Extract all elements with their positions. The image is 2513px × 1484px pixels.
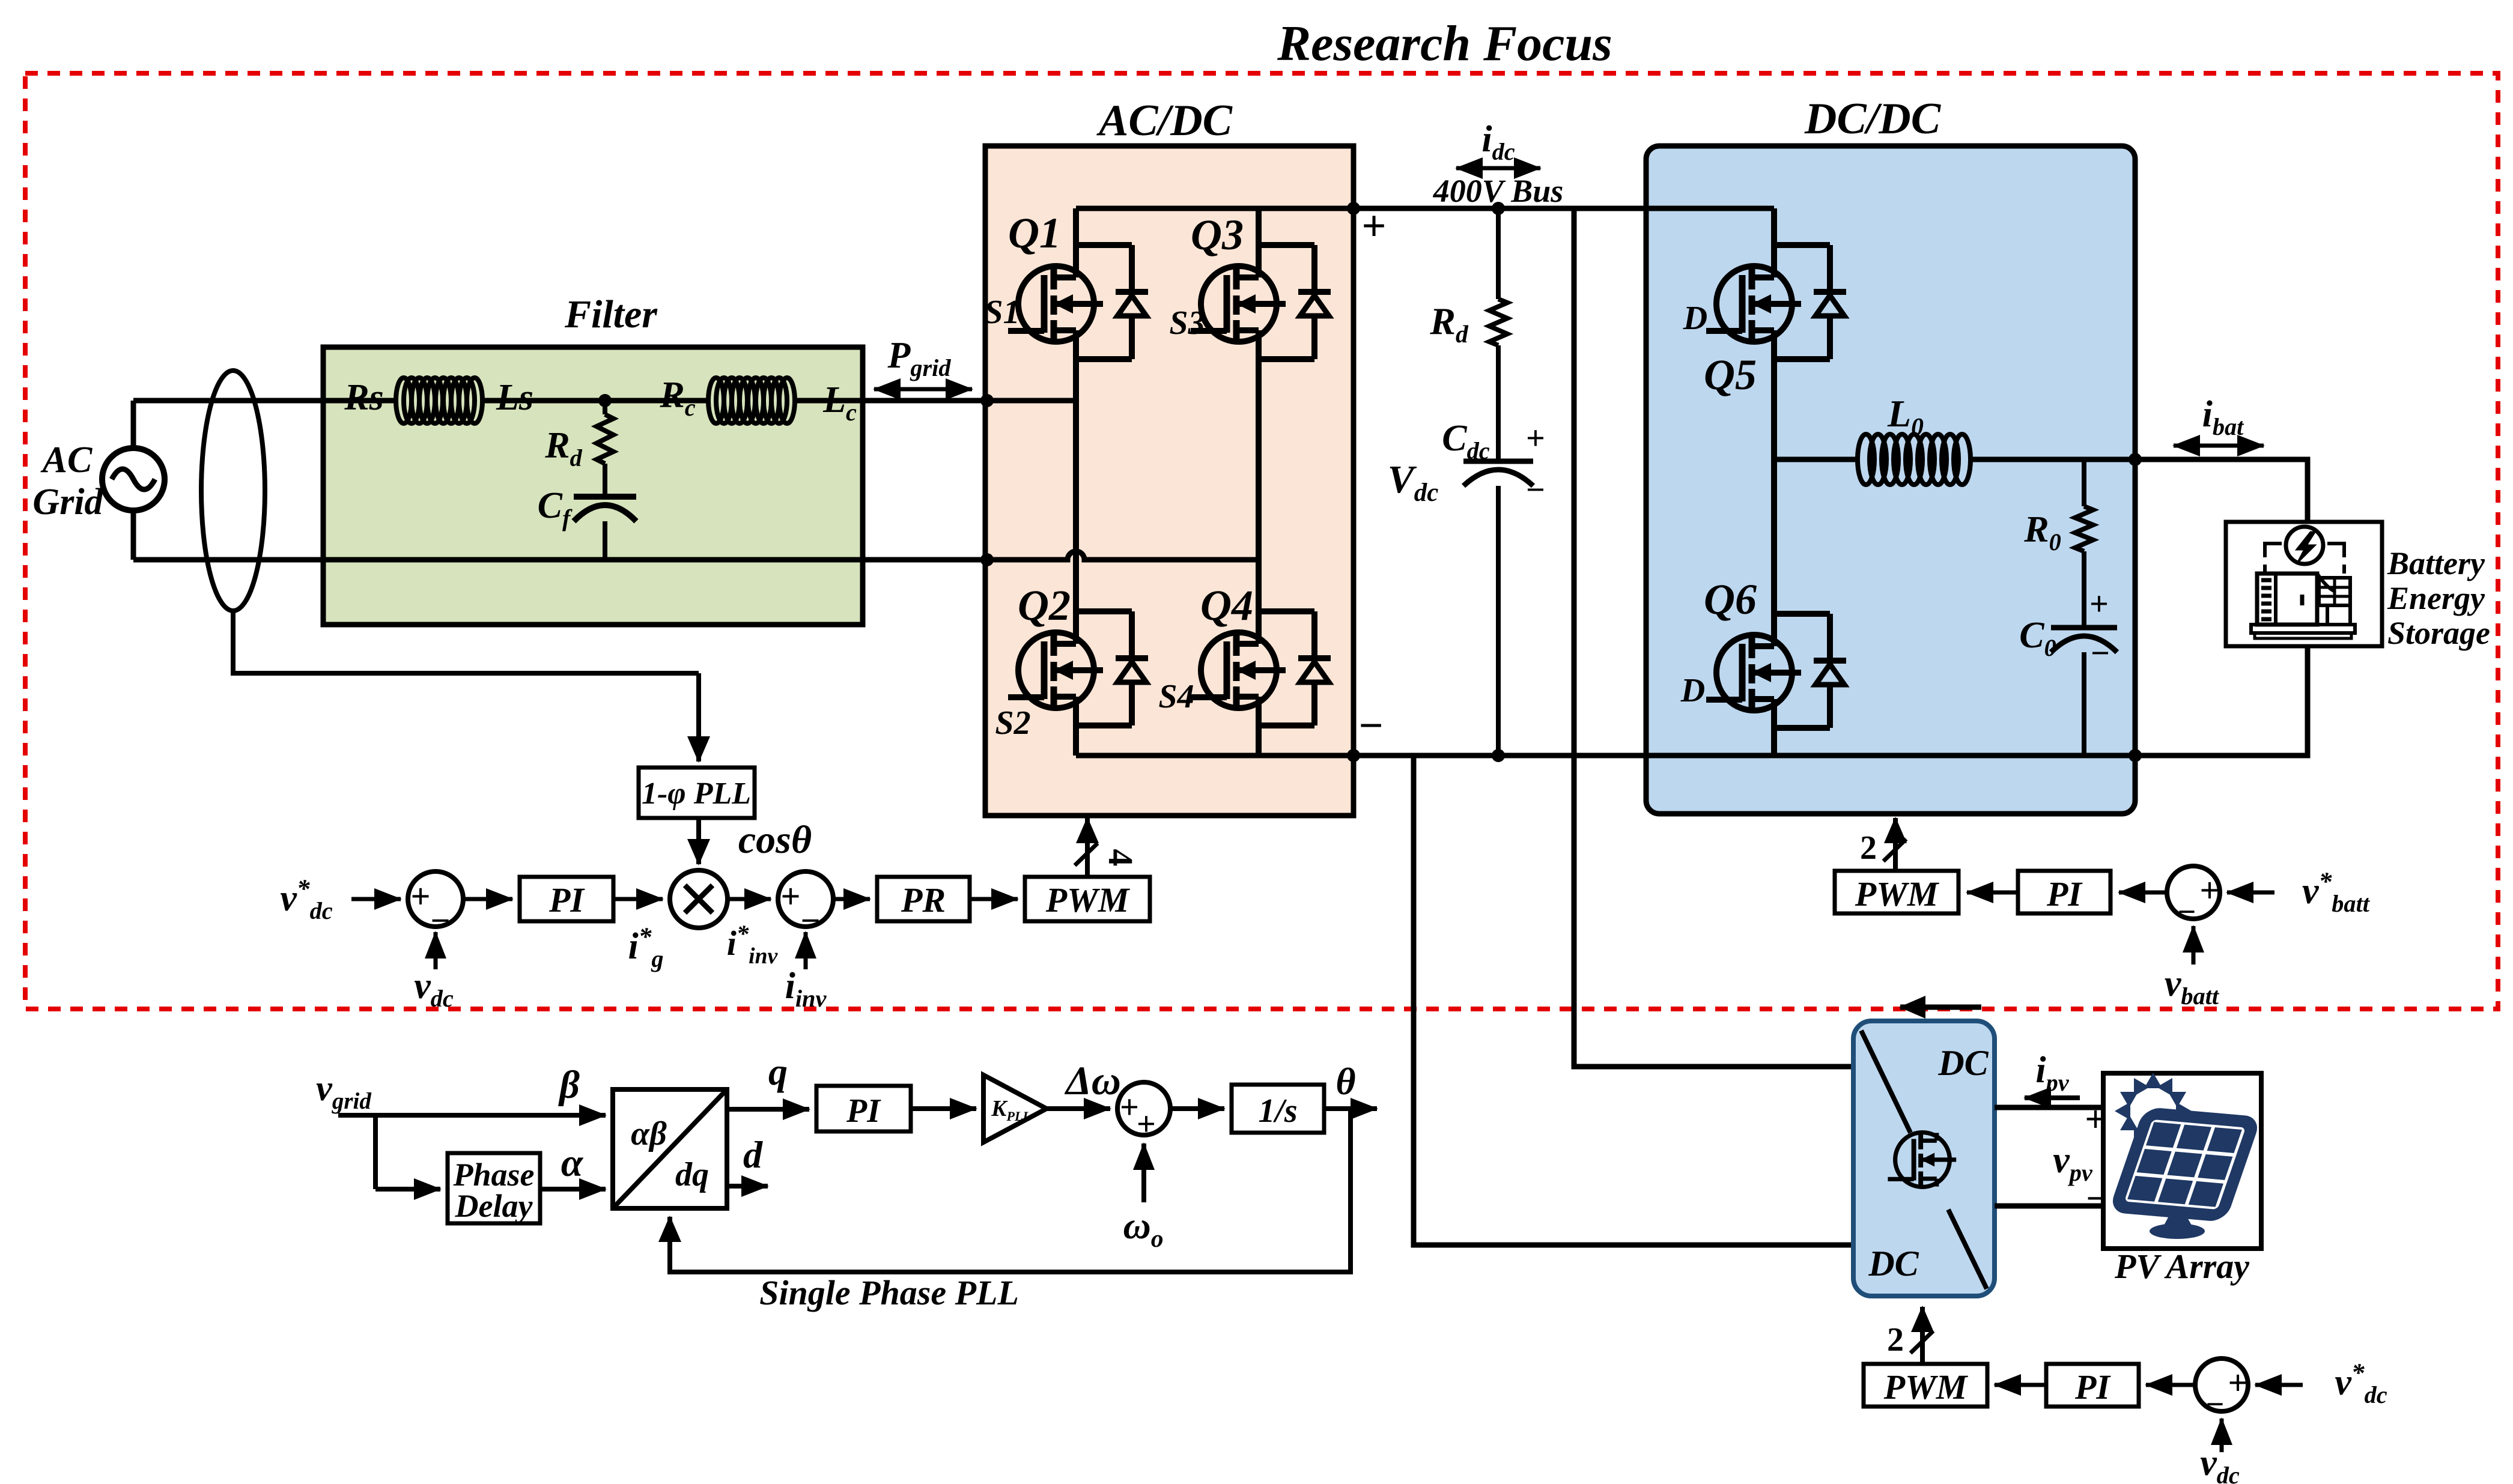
arrow sum to integrator: [1170, 1106, 1224, 1111]
wire DC/DC bottom bus: [1774, 753, 2135, 759]
svg-text:S3: S3: [1169, 304, 1205, 342]
block PI pll: [816, 1086, 911, 1131]
transistor Q1: [1008, 245, 1148, 359]
node bus + terminal: [1347, 202, 1360, 215]
wire vgrid: [338, 1113, 375, 1118]
arrow PI to mult: [613, 897, 663, 901]
svg-text:Single Phase PLL: Single Phase PLL: [759, 1273, 1019, 1312]
wire to R0: [2082, 459, 2086, 506]
transistor Q5: [1706, 245, 1846, 359]
inductor Ls: [396, 378, 412, 423]
arrow vdc up: [434, 932, 438, 969]
svg-text:dq: dq: [675, 1156, 709, 1193]
wire bus drop to PV upper: [1574, 208, 1853, 1067]
capacitor Cdc: [1463, 459, 1533, 464]
block PI pv: [2046, 1364, 2139, 1407]
svg-text:PR: PR: [901, 880, 946, 919]
svg-text:PI: PI: [846, 1092, 881, 1130]
PV converter block: [1853, 1021, 1995, 1296]
PV array icon: [2176, 1102, 2192, 1120]
svg-text:DC/DC: DC/DC: [1804, 94, 1942, 144]
transformer ellipse: [201, 371, 265, 611]
arrow PI to PWM battery: [1967, 891, 2018, 895]
arrow vbatt up: [2192, 926, 2196, 965]
wire L0 to edge: [1971, 457, 2135, 462]
svg-text:Q3: Q3: [1191, 211, 1244, 259]
svg-text:+: +: [410, 877, 430, 916]
transistor Q6: [1706, 614, 1846, 728]
block PWM pv: [1864, 1364, 1987, 1407]
svg-text:Q1: Q1: [1008, 209, 1061, 257]
transistor PV mosfet: [1888, 1133, 1956, 1187]
svg-text:AC: AC: [40, 440, 93, 480]
wire 400V bus top: [1354, 206, 1646, 211]
summer S_dc: [408, 871, 463, 927]
resistor Rd filter: [603, 401, 607, 414]
wire R0 to C0: [2082, 551, 2086, 628]
arrow beta into ab: [375, 1113, 606, 1118]
wire 400V bus bottom: [1354, 753, 1646, 759]
svg-text:Q5: Q5: [1704, 351, 1757, 399]
transistor Q4: [1191, 611, 1331, 725]
resistor R0: [2075, 506, 2093, 551]
wire grid top line: [133, 398, 987, 404]
inductor Lc: [708, 378, 724, 423]
DC/DC converter block (blue): [1646, 146, 2135, 814]
PV array box: [2103, 1073, 2261, 1249]
svg-text:PI: PI: [548, 880, 585, 919]
svg-text:Grid: Grid: [32, 482, 103, 522]
svg-text:−: −: [1358, 701, 1383, 750]
tick 4 wires: [1075, 843, 1098, 865]
svg-text:PWM: PWM: [1855, 874, 1940, 913]
block Phase Delay: [448, 1153, 540, 1223]
wire grid bottom line: [133, 551, 1259, 560]
tick 2 wires battery: [1883, 839, 1906, 861]
svg-text:+: +: [2089, 586, 2109, 623]
svg-text:4: 4: [1101, 849, 1140, 867]
node bus - terminal: [1347, 749, 1360, 762]
AC/DC converter block (orange): [985, 146, 1354, 816]
arrow d out: [727, 1184, 768, 1189]
svg-text:αβ: αβ: [631, 1115, 667, 1152]
block PWM acdc: [1025, 877, 1150, 921]
svg-text:S4: S4: [1158, 678, 1194, 715]
node filter out top: [980, 394, 994, 407]
svg-text:2: 2: [1860, 829, 1877, 867]
wire Rd to Cdc: [1496, 345, 1501, 461]
arrow PWM to bridge 4: [1085, 818, 1090, 877]
wire Cdc down: [1496, 486, 1501, 756]
svg-text:α: α: [561, 1141, 584, 1185]
arrow idc double: [1456, 166, 1540, 171]
wire left leg: [1073, 208, 1079, 245]
svg-text:PI: PI: [2074, 1367, 2111, 1407]
svg-text:+: +: [1137, 1106, 1156, 1143]
capacitor C0: [2051, 625, 2117, 631]
svg-text:+: +: [780, 877, 800, 916]
block PI voltage: [520, 877, 613, 921]
battery energy storage box: [2226, 522, 2382, 646]
node DC/DC out bottom: [2129, 749, 2142, 762]
wire C0 down: [2082, 652, 2086, 756]
inductor L0: [1858, 434, 1874, 485]
svg-text:+: +: [1526, 420, 1545, 457]
svg-text:D: D: [1683, 300, 1707, 337]
svg-text:+: +: [2228, 1363, 2247, 1402]
wire DC/DC leg: [1771, 208, 1777, 245]
arrow v*dc to pv sum: [2255, 1383, 2303, 1387]
arrow ipv: [2025, 1095, 2080, 1100]
wire phase node to L0: [1774, 457, 1857, 462]
PV converter diagonal bottom: [1948, 1210, 1987, 1289]
wire bus into DC/DC bottom: [1646, 753, 1774, 759]
arrow v*dc to sum: [351, 897, 401, 901]
PV converter diagonal top: [1861, 1031, 1910, 1133]
wire Cf down: [603, 521, 607, 560]
svg-text:Ls: Ls: [496, 377, 533, 418]
svg-text:D: D: [1680, 672, 1705, 709]
arrow q out: [727, 1107, 809, 1112]
svg-text:Phase: Phase: [453, 1157, 535, 1193]
node filter tap: [598, 394, 612, 407]
node filter out bottom: [980, 553, 994, 566]
arrow into research focus: [1900, 1005, 1981, 1010]
wire PLL sense tap: [233, 611, 699, 673]
arrow v*batt to sum: [2227, 891, 2274, 895]
filter block (green): [323, 347, 863, 625]
svg-text:β: β: [558, 1063, 580, 1107]
svg-text:PI: PI: [2046, 874, 2083, 913]
arrow sum to PI pv: [2146, 1383, 2195, 1387]
node Cdc bottom: [1492, 749, 1505, 762]
block alphabeta-dq: [613, 1089, 727, 1208]
AC grid source V1: [102, 448, 165, 510]
svg-text:−: −: [430, 901, 450, 940]
arrow PI to Kpll: [911, 1106, 976, 1111]
svg-text:−: −: [2091, 635, 2110, 672]
arrow into phase delay: [375, 1187, 440, 1192]
wire bus into DC/DC top: [1646, 206, 1774, 211]
block 1-phi PLL: [639, 768, 755, 818]
svg-text:DC: DC: [1868, 1244, 1919, 1283]
arrow ibat double: [2174, 444, 2264, 448]
arrow PR to PWM: [970, 897, 1018, 901]
wire PV out lower: [1995, 1204, 2103, 1209]
svg-text:Q6: Q6: [1704, 575, 1757, 623]
arrow omega0 up: [1141, 1143, 1146, 1202]
svg-text:Storage: Storage: [2387, 615, 2490, 651]
arrow mult to sum2: [728, 897, 771, 901]
svg-text:−: −: [2206, 1386, 2225, 1422]
transistor Q2: [1008, 611, 1148, 725]
summer S_pll: [1117, 1082, 1170, 1135]
gain KPLL: [983, 1075, 1047, 1142]
svg-text:+: +: [2199, 871, 2219, 910]
wire to battery top: [2135, 459, 2308, 522]
wire Rd to Cf: [603, 464, 607, 497]
wire phase A to left leg: [987, 398, 1076, 404]
wire AC source top: [131, 401, 136, 448]
wire top bus inside AC/DC: [1076, 206, 1354, 211]
arrow alpha into ab: [540, 1187, 606, 1192]
capacitor Cf: [574, 494, 636, 500]
tick 2 wires pv: [1910, 1331, 1933, 1353]
svg-text:Delay: Delay: [455, 1188, 533, 1224]
svg-text:S1: S1: [984, 294, 1019, 331]
summer S_pv: [2195, 1358, 2248, 1411]
battery icon: [2286, 527, 2323, 564]
wire battery bottom: [2135, 646, 2308, 756]
svg-text:+: +: [1361, 202, 1386, 250]
transistor Q3: [1191, 245, 1331, 359]
block PR: [877, 877, 970, 921]
svg-text:−: −: [800, 901, 820, 940]
arrow PI to PWM pv: [1995, 1383, 2046, 1387]
wire vgrid branch: [373, 1115, 378, 1189]
resistor Rd bus: [1489, 299, 1507, 345]
svg-text:DC: DC: [1937, 1043, 1989, 1083]
block integrator 1/s: [1232, 1085, 1324, 1133]
summer S_batt: [2167, 866, 2220, 919]
wire bus drop to PV lower: [1414, 756, 1853, 1245]
svg-text:1-φ PLL: 1-φ PLL: [642, 777, 751, 811]
svg-text:AC/DC: AC/DC: [1096, 96, 1233, 145]
svg-text:Energy: Energy: [2387, 580, 2485, 616]
summer S_inv: [778, 871, 833, 927]
svg-text:−: −: [1526, 471, 1545, 509]
svg-text:2: 2: [1887, 1321, 1904, 1358]
multiplier: [670, 870, 728, 928]
node Rd top: [1492, 202, 1505, 215]
block PI battery: [2018, 871, 2110, 913]
arrow Kpll to sum: [1047, 1106, 1110, 1111]
svg-text:q: q: [768, 1050, 788, 1093]
svg-text:d: d: [743, 1133, 763, 1176]
arrow PLL to mult: [696, 818, 701, 864]
wire bottom bus inside AC/DC: [1076, 753, 1354, 759]
arrow iinv up: [804, 932, 808, 969]
svg-text:PWM: PWM: [1883, 1367, 1969, 1407]
arrow sum2 to PR: [833, 897, 870, 901]
arrow 2 into DC/DC: [1893, 818, 1898, 871]
svg-text:−: −: [2178, 894, 2196, 930]
arrow sum to PI battery: [2119, 891, 2167, 895]
svg-text:Q4: Q4: [1200, 581, 1253, 629]
arrow sum to PI: [463, 897, 512, 901]
red dashed research-focus border: [25, 73, 2498, 1009]
svg-text:cosθ: cosθ: [738, 818, 812, 862]
block PWM battery: [1835, 871, 1958, 913]
svg-text:1/s: 1/s: [1258, 1092, 1297, 1130]
wire PV out upper: [1995, 1105, 2103, 1110]
svg-text:Rs: Rs: [344, 377, 383, 418]
node DC/DC out top: [2129, 453, 2142, 466]
arrow Pgrid both ways: [874, 387, 972, 392]
svg-text:Q2: Q2: [1018, 581, 1071, 629]
svg-text:PWM: PWM: [1045, 880, 1131, 919]
svg-text:Δω: Δω: [1064, 1058, 1121, 1103]
arrow feedback into dq: [667, 1217, 672, 1237]
wire sense to PLL: [696, 673, 701, 762]
wire right leg: [1256, 208, 1262, 245]
svg-text:Battery: Battery: [2387, 545, 2485, 581]
wire bus to Rd: [1496, 208, 1501, 299]
wire pll feedback: [670, 1109, 1351, 1272]
svg-text:Filter: Filter: [564, 292, 658, 336]
svg-text:θ: θ: [1336, 1060, 1355, 1103]
arrow 2 into PV converter: [1920, 1307, 1925, 1364]
arrow vdc pv up: [2220, 1419, 2224, 1452]
arrow theta out: [1324, 1106, 1377, 1111]
svg-text:S2: S2: [995, 704, 1030, 742]
svg-text:Research Focus: Research Focus: [1277, 16, 1612, 71]
svg-text:PV Array: PV Array: [2114, 1247, 2249, 1286]
